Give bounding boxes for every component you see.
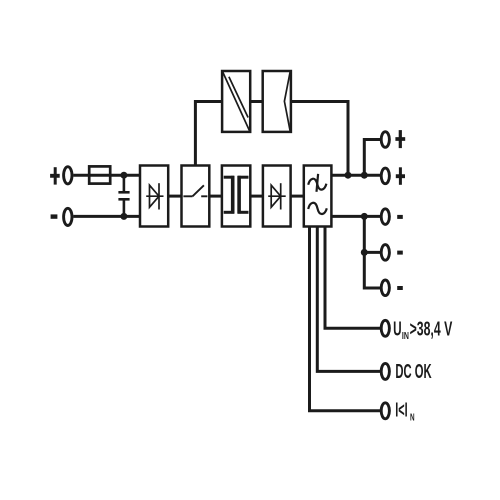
label - output1 [397,215,403,219]
wire box5 to Uin signal [325,227,380,329]
label + input [50,167,60,184]
diagonal symbol [223,72,250,132]
transformer box U3 [222,166,250,227]
boost box A [222,71,250,132]
wire box3 to box4 [250,195,263,198]
output diode box U4 [263,166,291,227]
transformer T1 [224,176,249,214]
boost box B [263,71,291,132]
terminal +2 [381,168,389,184]
wire box4 to box5 [291,195,304,198]
chevron symbol [284,72,290,132]
rectifier box U1 [140,166,168,227]
wire branch up to +1 terminal [364,140,380,176]
terminal -1 [381,209,389,225]
terminal DC OK [381,363,389,379]
wire - rail [331,215,380,218]
capacitor C1 [118,175,129,216]
label Uin>38,4 V [393,319,453,342]
wire branch to -2 terminal [364,251,380,254]
terminal +1 [381,132,389,148]
terminal input + [64,167,72,184]
switch box U2 [182,166,210,227]
svg-text:>38,4 V: >38,4 V [410,319,453,341]
svg-text:I<I: I<I [395,399,407,421]
chopped sine symbol [308,174,326,192]
terminal input - [64,208,72,225]
svg-text:DC OK: DC OK [395,361,432,383]
wire input - to box1 [73,215,140,218]
label - input [51,214,58,218]
fuse F1 [89,166,110,183]
node dot [345,172,352,179]
node dot [361,213,368,220]
node junction + rail [120,172,127,179]
wire box5 to I<In signal [310,227,381,411]
wire box2 up [195,102,222,166]
switch S1 [183,185,207,196]
node dot [361,249,368,256]
label + output2 [396,167,405,185]
wire input + to box1 [73,174,140,177]
wire branch down minus [364,216,380,288]
wire box2 to box3 [209,195,222,198]
node dot [361,172,368,179]
terminal I<In [381,403,389,419]
wire boxA to boxB [250,100,263,103]
wire boxB to + rail [291,102,348,176]
output filter box U5 [304,166,332,227]
terminal -3 [381,280,389,296]
label - output3 [397,286,403,290]
svg-text:IN: IN [402,331,409,342]
sine symbol [308,203,327,214]
label - output2 [397,251,403,255]
wire box5 to DC OK signal [317,227,380,372]
diode D2 [268,183,286,209]
terminal -2 [381,245,389,261]
svg-text:U: U [393,319,402,341]
wire box1 to box2 [168,195,181,198]
node junction - rail [120,213,127,220]
diode D1 [146,183,163,209]
svg-text:N: N [410,413,415,424]
label I<In [395,399,414,423]
label + output1 [395,130,405,148]
terminal Uin [381,320,389,336]
wire + rail [331,174,380,177]
